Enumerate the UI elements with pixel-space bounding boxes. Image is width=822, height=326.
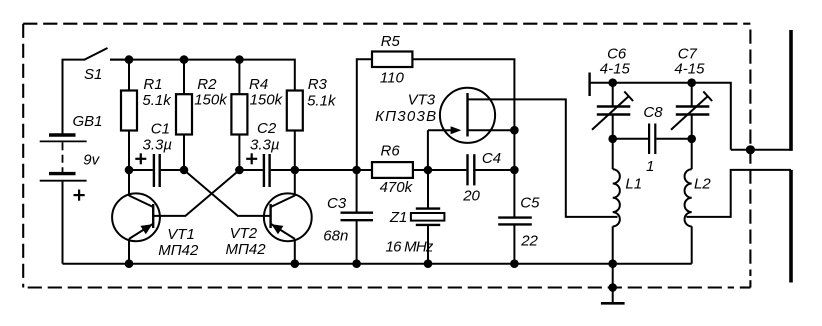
svg-text:L2: L2 <box>694 176 711 193</box>
crystal Z1 <box>386 170 445 264</box>
transistor VT2 <box>226 170 312 264</box>
wire C6 C7 top <box>590 83 731 150</box>
resistor R4 <box>231 76 283 134</box>
wire R4 top <box>238 60 240 95</box>
wire R5 right to C5 column <box>412 59 514 130</box>
svg-text:3.3µ: 3.3µ <box>250 136 280 153</box>
wire L2 tap to lower feed <box>686 170 791 217</box>
svg-text:4-15: 4-15 <box>600 61 631 78</box>
node top rail R2 <box>180 55 189 64</box>
wire R2 bottom <box>183 135 185 171</box>
node rail VT1 emitter <box>125 259 134 268</box>
svg-text:VT3: VT3 <box>408 92 436 109</box>
svg-text:110: 110 <box>380 69 405 86</box>
svg-text:C5: C5 <box>520 195 540 212</box>
wire R4 bottom <box>238 135 240 171</box>
node rail VT2 emitter <box>291 259 300 268</box>
node rail C3 <box>352 259 361 268</box>
resistor R2 <box>176 76 228 134</box>
svg-text:R3: R3 <box>308 76 328 93</box>
wire upper feed to antenna <box>731 149 791 151</box>
wire bottom rail <box>63 263 692 265</box>
wire R5 left leg <box>357 59 372 170</box>
transistor VT1 <box>112 170 199 264</box>
wire battery top to switch <box>63 60 85 134</box>
node C6 bottom <box>608 135 617 144</box>
svg-text:68n: 68n <box>323 227 348 244</box>
antenna element bottom <box>789 170 793 283</box>
node C7 bottom <box>687 135 696 144</box>
svg-text:9v: 9v <box>83 152 100 169</box>
node VT1 collector <box>125 166 134 175</box>
svg-text:Z1: Z1 <box>389 209 408 226</box>
svg-text:4-15: 4-15 <box>674 61 705 78</box>
wire R2 top <box>183 60 185 95</box>
resistor R5 <box>372 33 412 86</box>
wire R6 to Z1 node <box>413 169 428 171</box>
svg-text:16 MHz: 16 MHz <box>386 238 434 255</box>
svg-text:R6: R6 <box>381 142 401 159</box>
capacitor C3 <box>323 170 373 264</box>
node rail L1 ground <box>608 259 617 268</box>
wire VT3 gate to Z1 node <box>427 130 429 170</box>
node antenna feed border <box>746 145 755 154</box>
capacitor C2 <box>239 120 294 187</box>
svg-text:R5: R5 <box>381 33 401 50</box>
svg-text:5.1k: 5.1k <box>142 92 172 109</box>
capacitor C4 <box>428 150 515 204</box>
capacitor C8 <box>613 104 692 175</box>
antenna element top <box>789 30 793 151</box>
switch S1 <box>84 48 129 83</box>
trimmer capacitor C6 <box>592 45 633 139</box>
svg-text:КП303В: КП303В <box>375 108 437 125</box>
node C7 top <box>687 78 696 87</box>
inductor L1 <box>613 139 642 264</box>
wire battery bottom to rail <box>62 182 64 264</box>
ground <box>601 264 625 304</box>
node top rail R1 <box>125 55 134 64</box>
svg-text:22: 22 <box>520 233 538 250</box>
svg-text:1: 1 <box>646 158 654 175</box>
node C4 C5 <box>510 166 519 175</box>
wire VT3 source to C5 column <box>468 129 515 131</box>
svg-text:C4: C4 <box>482 150 501 167</box>
enclosure dashed border <box>23 24 750 288</box>
svg-text:VT1: VT1 <box>167 226 195 243</box>
node C3 R5 <box>352 166 361 175</box>
resistor R1 <box>121 76 172 131</box>
svg-text:R1: R1 <box>143 76 162 93</box>
inductor L2 <box>685 139 712 264</box>
svg-text:3.3µ: 3.3µ <box>143 136 173 153</box>
svg-text:470k: 470k <box>380 179 414 196</box>
capacitor C5 <box>498 130 540 264</box>
node C2 R4 <box>235 166 244 175</box>
wire R1 top <box>128 60 130 91</box>
resistor R3 <box>287 76 337 131</box>
wire VT3 drain to L1 tap <box>467 99 618 216</box>
wire R1 bottom <box>128 131 130 171</box>
node VT3 source <box>510 126 519 135</box>
node rail C5 <box>510 259 519 268</box>
svg-text:S1: S1 <box>84 66 102 83</box>
transistor VT3 <box>375 88 495 143</box>
node rail Z1 <box>424 259 433 268</box>
svg-text:L1: L1 <box>625 176 642 193</box>
svg-text:МП42: МП42 <box>158 242 199 259</box>
svg-text:150k: 150k <box>194 92 228 109</box>
svg-text:GB1: GB1 <box>73 113 103 130</box>
node Z1 gate <box>424 166 433 175</box>
wire cross-coupling C1 node to VT2 base <box>184 170 271 216</box>
node C6 top <box>608 78 617 87</box>
svg-text:20: 20 <box>462 187 480 204</box>
svg-text:VT2: VT2 <box>230 225 258 242</box>
capacitor C1 <box>129 120 184 187</box>
wire R3 bottom <box>294 131 296 171</box>
svg-text:150k: 150k <box>250 92 284 109</box>
wire cross-coupling C2 node to VT1 base <box>154 170 240 216</box>
svg-text:C3: C3 <box>327 195 347 212</box>
battery GB1 <box>40 113 103 201</box>
svg-text:C8: C8 <box>643 104 663 121</box>
svg-text:C2: C2 <box>257 120 277 137</box>
wire C3 node to R6 <box>357 169 372 171</box>
svg-text:МП42: МП42 <box>226 241 267 258</box>
node C1 R2 <box>180 166 189 175</box>
node ground border <box>608 283 617 292</box>
resistor R6 <box>372 142 414 196</box>
svg-text:5.1k: 5.1k <box>307 93 337 110</box>
trimmer capacitor C7 <box>671 45 712 139</box>
wire top rail <box>110 60 295 91</box>
wire antenna terminal tick <box>588 73 590 97</box>
wire mid row R3 node to C3 node <box>295 169 357 171</box>
node VT2 collector <box>291 166 300 175</box>
node top rail R4 <box>235 55 244 64</box>
svg-text:C1: C1 <box>151 120 170 137</box>
